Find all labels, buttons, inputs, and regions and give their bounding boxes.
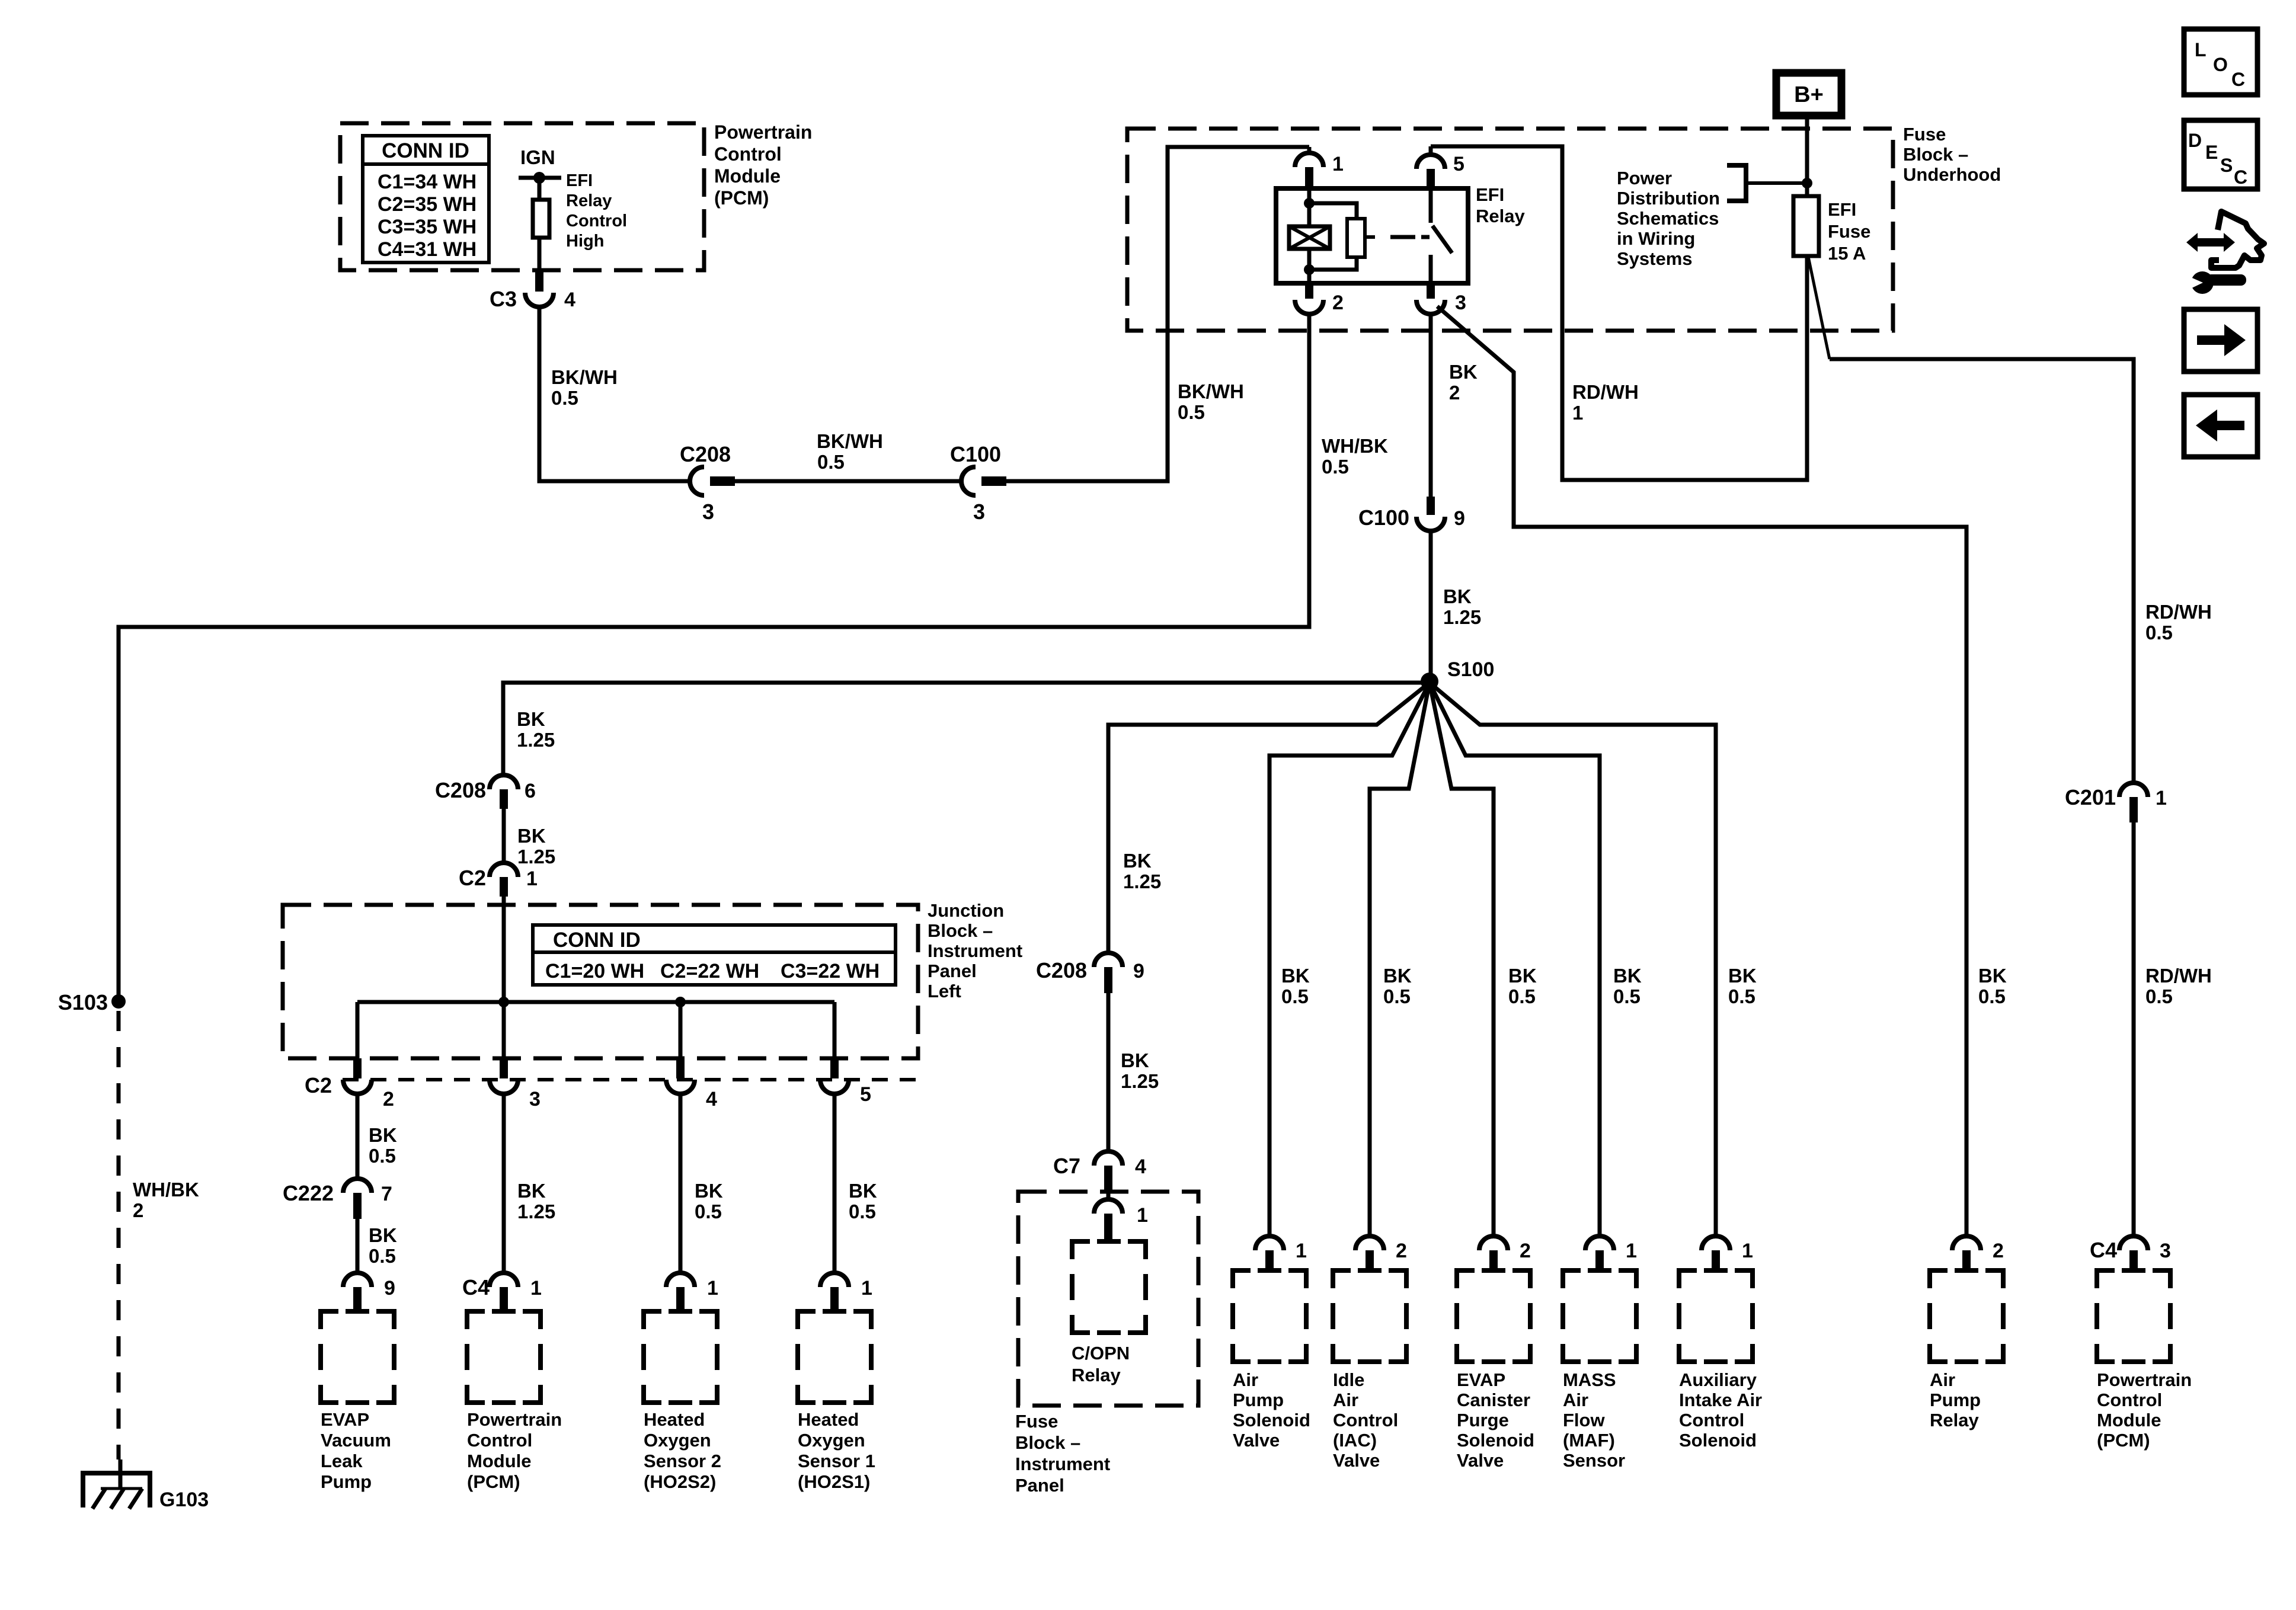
svg-text:Vacuum: Vacuum bbox=[321, 1430, 391, 1451]
svg-text:RD/WH: RD/WH bbox=[2145, 601, 2212, 623]
label: BK 0.5 (air pump relay) bbox=[1978, 965, 2007, 1007]
label: WH/BK 2 bbox=[133, 1179, 199, 1221]
svg-text:Junction: Junction bbox=[928, 900, 1004, 921]
svg-text:C7: C7 bbox=[1053, 1154, 1080, 1178]
ground G103 bbox=[83, 1459, 150, 1509]
svg-text:EFI: EFI bbox=[1476, 184, 1504, 205]
svg-text:0.5: 0.5 bbox=[551, 387, 578, 409]
svg-text:1: 1 bbox=[1296, 1240, 1307, 1262]
CONN ID table (junction block) bbox=[533, 925, 896, 985]
svg-text:1: 1 bbox=[861, 1277, 872, 1299]
svg-text:0.5: 0.5 bbox=[849, 1201, 876, 1222]
svg-text:(MAF): (MAF) bbox=[1563, 1430, 1615, 1451]
svg-text:D: D bbox=[2188, 130, 2202, 151]
junction dot (branch at C2-4) bbox=[675, 997, 686, 1007]
connector pin1 + box: MASS Air Flow Sensor bbox=[1563, 1236, 1637, 1471]
svg-text:Module: Module bbox=[467, 1451, 532, 1471]
svg-text:Air: Air bbox=[1333, 1390, 1358, 1410]
icon: right arrow box bbox=[2184, 309, 2257, 372]
label: BK 0.5 (air pump solenoid) bbox=[1281, 965, 1310, 1007]
label: Junction Block - Instrument Panel Left bbox=[928, 900, 1022, 1001]
label: G103 bbox=[159, 1489, 209, 1511]
svg-text:CONN ID: CONN ID bbox=[553, 929, 641, 952]
bracket: power distribution reference bbox=[1727, 165, 1807, 201]
wire: B+ to fuse bbox=[1805, 116, 1809, 196]
wire: S100 branch to IAC valve bbox=[1370, 683, 1430, 1237]
svg-text:in Wiring: in Wiring bbox=[1617, 228, 1695, 249]
svg-text:1: 1 bbox=[526, 868, 538, 890]
connector pin2 + box: Air Pump Relay bbox=[1930, 1236, 2004, 1430]
svg-text:2: 2 bbox=[1396, 1240, 1407, 1262]
svg-text:Solenoid: Solenoid bbox=[1679, 1430, 1757, 1451]
svg-text:Relay: Relay bbox=[566, 191, 612, 210]
label: Heated Oxygen Sensor 2 (HO2S2) bbox=[644, 1409, 721, 1492]
svg-text:0.5: 0.5 bbox=[1978, 985, 2006, 1007]
component box: Heated Oxygen Sensor 2, dashed bbox=[644, 1311, 717, 1403]
component box: Junction Block - Instrument Panel Left, dashed bbox=[283, 905, 918, 1058]
svg-text:Systems: Systems bbox=[1617, 248, 1693, 269]
component box: Heated Oxygen Sensor 1, dashed bbox=[798, 1311, 871, 1403]
svg-text:Control: Control bbox=[1333, 1410, 1398, 1430]
svg-text:C2: C2 bbox=[459, 866, 486, 890]
relay coil bbox=[1289, 188, 1330, 283]
svg-text:WH/BK: WH/BK bbox=[133, 1179, 199, 1201]
svg-text:1: 1 bbox=[707, 1277, 718, 1299]
svg-text:1: 1 bbox=[1332, 153, 1344, 175]
svg-text:Powertrain: Powertrain bbox=[714, 121, 812, 143]
svg-text:EFI: EFI bbox=[566, 171, 593, 190]
svg-text:BK: BK bbox=[1123, 850, 1152, 872]
wire: S100 branch to C208-9 column bbox=[1108, 683, 1430, 953]
svg-text:0.5: 0.5 bbox=[1281, 985, 1309, 1007]
label: RD/WH 0.5 (upper) bbox=[2145, 601, 2212, 644]
connector pin1 + box: Air Pump Solenoid Valve bbox=[1233, 1236, 1310, 1451]
svg-text:BK: BK bbox=[1121, 1049, 1149, 1071]
label: Power Distribution Schematics in Wiring Systems bbox=[1617, 168, 1720, 269]
wire: S100 branch to MAF sensor bbox=[1430, 683, 1600, 1237]
svg-text:High: High bbox=[566, 232, 604, 251]
svg-text:CONN ID: CONN ID bbox=[382, 139, 469, 162]
svg-text:0.5: 0.5 bbox=[2145, 622, 2173, 644]
label: BK/WH 0.5 (mid) bbox=[817, 430, 883, 473]
svg-text:BK: BK bbox=[1978, 965, 2007, 987]
label: RD/WH 0.5 (lower) bbox=[2145, 965, 2212, 1007]
connector C7 pin 4 (inline) bbox=[1053, 1151, 1146, 1192]
svg-text:Sensor 1: Sensor 1 bbox=[798, 1451, 875, 1471]
svg-text:1: 1 bbox=[1572, 402, 1583, 424]
svg-text:3: 3 bbox=[1455, 292, 1466, 314]
label: BK 0.5 (EVAP purge) bbox=[1508, 965, 1537, 1007]
svg-text:Module: Module bbox=[2097, 1410, 2161, 1430]
svg-text:Instrument: Instrument bbox=[1015, 1454, 1110, 1474]
svg-text:0.5: 0.5 bbox=[1383, 985, 1411, 1007]
svg-text:5: 5 bbox=[1453, 153, 1464, 175]
connector C222 pin 7 (inline) bbox=[283, 1179, 392, 1219]
svg-text:(PCM): (PCM) bbox=[2097, 1430, 2150, 1451]
component box: EVAP Vacuum Leak Pump, dashed bbox=[321, 1311, 394, 1403]
svg-text:Pump: Pump bbox=[1930, 1390, 1981, 1410]
svg-text:C2: C2 bbox=[305, 1073, 332, 1097]
label: EFI Relay bbox=[1476, 184, 1525, 226]
svg-text:2: 2 bbox=[1449, 382, 1460, 404]
icon: LOC box bbox=[2184, 29, 2257, 95]
svg-text:Heated: Heated bbox=[644, 1409, 705, 1430]
wire: WH/BK 2 S103 to G103, dashed bbox=[117, 1011, 121, 1459]
svg-text:Leak: Leak bbox=[321, 1451, 363, 1471]
svg-text:C: C bbox=[2234, 167, 2247, 188]
svg-text:Valve: Valve bbox=[1333, 1450, 1380, 1471]
svg-text:Schematics: Schematics bbox=[1617, 208, 1719, 229]
svg-text:1: 1 bbox=[2156, 787, 2167, 809]
svg-text:(HO2S2): (HO2S2) bbox=[644, 1471, 716, 1492]
svg-text:Pump: Pump bbox=[321, 1471, 372, 1492]
svg-text:0.5: 0.5 bbox=[369, 1245, 396, 1267]
svg-text:C2=35 WH: C2=35 WH bbox=[378, 193, 477, 216]
label: BK 1.25 (above C208-9) bbox=[1123, 850, 1161, 892]
svg-text:0.5: 0.5 bbox=[1178, 401, 1205, 423]
svg-text:Fuse: Fuse bbox=[1903, 124, 1946, 145]
svg-text:C4=31 WH: C4=31 WH bbox=[378, 238, 477, 261]
svg-text:2: 2 bbox=[383, 1088, 394, 1110]
svg-text:C208: C208 bbox=[1036, 958, 1087, 982]
junction dot relay coil top bbox=[1304, 198, 1315, 209]
svg-text:3: 3 bbox=[702, 500, 714, 524]
terminal B+ bbox=[1776, 73, 1841, 116]
connector row line C2, dotted bbox=[343, 1078, 917, 1081]
wire: BK 0.5 C2-5 to HO2S1 bbox=[833, 1094, 837, 1273]
connector C2 pin 4 bbox=[666, 1058, 717, 1110]
wire: C7-4 into fuse block bbox=[1107, 1192, 1111, 1201]
svg-text:C: C bbox=[2231, 69, 2245, 90]
svg-text:1: 1 bbox=[530, 1277, 542, 1299]
connector pin 1 (HO2S2) bbox=[666, 1273, 718, 1311]
svg-text:1.25: 1.25 bbox=[1123, 870, 1161, 892]
svg-text:(PCM): (PCM) bbox=[714, 187, 769, 209]
label: BK/WH 0.5 bbox=[551, 366, 618, 409]
svg-text:C2=22 WH: C2=22 WH bbox=[660, 960, 759, 982]
svg-text:0.5: 0.5 bbox=[1322, 456, 1349, 478]
svg-text:Relay: Relay bbox=[1930, 1410, 1979, 1430]
svg-text:Underhood: Underhood bbox=[1903, 164, 2001, 185]
svg-text:0.5: 0.5 bbox=[1613, 985, 1641, 1007]
svg-text:4: 4 bbox=[564, 289, 575, 311]
svg-text:BK/WH: BK/WH bbox=[551, 366, 618, 388]
svg-text:15 A: 15 A bbox=[1828, 243, 1866, 264]
connector relay pin 2 bbox=[1295, 283, 1344, 314]
svg-text:Control: Control bbox=[566, 212, 627, 231]
svg-text:Control: Control bbox=[714, 143, 782, 165]
svg-text:1: 1 bbox=[1626, 1240, 1637, 1262]
svg-text:Auxiliary: Auxiliary bbox=[1679, 1369, 1757, 1390]
svg-text:Power: Power bbox=[1617, 168, 1672, 188]
connector C2 pin 2 bbox=[343, 1058, 394, 1110]
svg-text:BK/WH: BK/WH bbox=[1178, 380, 1244, 402]
CONN ID table (PCM) bbox=[363, 136, 489, 263]
connector C201 pin 1 (inline) bbox=[2065, 783, 2167, 822]
svg-text:C222: C222 bbox=[283, 1181, 334, 1205]
svg-text:BK: BK bbox=[1443, 585, 1472, 607]
wire: RD/WH 0.5 fuse to C201 bbox=[1808, 257, 2134, 783]
svg-text:Heated: Heated bbox=[798, 1409, 859, 1430]
icon: schematic navigation (arrows and wrench) bbox=[2186, 212, 2264, 294]
wire: junction block internal branch bbox=[357, 1002, 834, 1058]
splice S100 bbox=[1421, 658, 1494, 690]
svg-text:Solenoid: Solenoid bbox=[1457, 1430, 1534, 1451]
svg-text:9: 9 bbox=[384, 1277, 395, 1299]
connector relay pin 5 bbox=[1416, 146, 1464, 188]
svg-text:1.25: 1.25 bbox=[517, 1201, 555, 1222]
svg-text:B+: B+ bbox=[1794, 82, 1824, 107]
wire: BK 0.5 relay pin 3 to air pump relay bbox=[1437, 306, 1966, 1237]
svg-text:Fuse: Fuse bbox=[1828, 221, 1870, 242]
junction dot (branch at C2-3) bbox=[498, 997, 509, 1007]
svg-text:C1=20 WH: C1=20 WH bbox=[545, 960, 644, 982]
label: BK 1.25 (below C208-9) bbox=[1121, 1049, 1159, 1092]
icon: left arrow box bbox=[2184, 395, 2257, 457]
svg-text:Block –: Block – bbox=[928, 920, 993, 941]
connector pin 9 (EVAP vacuum leak pump) bbox=[343, 1273, 395, 1311]
svg-text:Block –: Block – bbox=[1903, 144, 1968, 165]
svg-text:Canister: Canister bbox=[1457, 1390, 1530, 1410]
wire: BK 0.5 C2-2 to C222-7 bbox=[356, 1094, 360, 1179]
svg-text:Oxygen: Oxygen bbox=[644, 1430, 711, 1451]
svg-text:Relay: Relay bbox=[1476, 206, 1525, 226]
svg-text:BK/WH: BK/WH bbox=[817, 430, 883, 452]
relay switch contact bbox=[1431, 188, 1452, 283]
svg-text:0.5: 0.5 bbox=[695, 1201, 722, 1222]
wire: RD/WH 1 fuse to relay pin 5 bbox=[1431, 146, 1807, 480]
label: Fuse Block - Instrument Panel bbox=[1015, 1411, 1110, 1496]
label: BK 0.5 (auxiliary) bbox=[1728, 965, 1757, 1007]
svg-text:0.5: 0.5 bbox=[369, 1145, 396, 1167]
svg-text:1.25: 1.25 bbox=[1121, 1070, 1159, 1092]
wire: BK 0.5 C222-7 down bbox=[356, 1219, 360, 1273]
svg-text:Panel: Panel bbox=[1015, 1475, 1064, 1496]
svg-text:Valve: Valve bbox=[1233, 1430, 1280, 1451]
label: BK 0.5 (HO2S1) bbox=[849, 1180, 877, 1222]
svg-text:4: 4 bbox=[706, 1088, 717, 1110]
svg-text:Control: Control bbox=[1679, 1410, 1744, 1430]
connector relay pin 1 bbox=[1295, 147, 1344, 188]
svg-text:C4: C4 bbox=[2090, 1238, 2117, 1262]
svg-text:RD/WH: RD/WH bbox=[1572, 381, 1639, 403]
junction dot relay coil bottom bbox=[1304, 264, 1315, 275]
svg-text:Module: Module bbox=[714, 165, 781, 187]
splice S103 bbox=[58, 990, 126, 1014]
connector pin2 + box: EVAP Canister Purge Solenoid Valve bbox=[1457, 1236, 1534, 1471]
connector C3 pin 4 (PCM) bbox=[490, 270, 575, 311]
label: EFI Fuse 15 A bbox=[1828, 199, 1870, 264]
svg-text:3: 3 bbox=[2160, 1240, 2171, 1262]
label: BK 0.5 (2) bbox=[369, 1224, 397, 1267]
svg-text:BK: BK bbox=[1281, 965, 1310, 987]
label: EFI Relay Control High bbox=[566, 171, 627, 251]
svg-text:(HO2S1): (HO2S1) bbox=[798, 1471, 870, 1492]
svg-text:BK: BK bbox=[1613, 965, 1642, 987]
svg-text:C208: C208 bbox=[680, 442, 731, 466]
svg-text:Flow: Flow bbox=[1563, 1410, 1605, 1430]
label: BK 2 bbox=[1449, 361, 1478, 404]
label: EVAP Vacuum Leak Pump bbox=[321, 1409, 391, 1492]
svg-text:3: 3 bbox=[529, 1088, 541, 1110]
label: Powertrain Control Module (PCM) bbox=[714, 121, 812, 209]
connector pin 1 (C/OPN relay) bbox=[1094, 1199, 1148, 1241]
wire: into junction block bbox=[502, 897, 506, 1002]
svg-text:L: L bbox=[2195, 39, 2207, 60]
label: RD/WH 1 bbox=[1572, 381, 1639, 424]
label: BK/WH 0.5 (right) bbox=[1178, 380, 1244, 423]
wire: BK/WH 0.5 from C3-4 down and right bbox=[539, 307, 690, 481]
svg-text:MASS: MASS bbox=[1563, 1369, 1616, 1390]
svg-text:Air: Air bbox=[1233, 1369, 1258, 1390]
svg-text:S103: S103 bbox=[58, 990, 108, 1014]
svg-text:1.25: 1.25 bbox=[517, 846, 555, 868]
node IGN bbox=[519, 146, 561, 184]
component box: Powertrain Control Module (PCM), dashed bbox=[340, 123, 704, 270]
wire: WH/BK 0.5 relay pin 2 to S103 bbox=[119, 314, 1309, 998]
wire: BK 1.25 C2-3 to PCM bbox=[502, 1094, 506, 1273]
component box: Fuse Block - Instrument Panel, dashed bbox=[1018, 1192, 1198, 1406]
connector pin1 + box: Auxiliary Intake Air Control Solenoid bbox=[1679, 1236, 1762, 1451]
component box: Fuse Block - Underhood, dashed bbox=[1127, 129, 1893, 331]
svg-text:C1=34 WH: C1=34 WH bbox=[378, 171, 477, 193]
label: BK 0.5 bbox=[369, 1124, 397, 1167]
connector pin2 + box: Idle Air Control Valve bbox=[1333, 1236, 1407, 1471]
label: WH/BK 0.5 bbox=[1322, 435, 1388, 478]
svg-text:BK: BK bbox=[517, 1180, 546, 1202]
icon: DESC box bbox=[2184, 120, 2257, 189]
svg-text:Valve: Valve bbox=[1457, 1450, 1504, 1471]
svg-text:Air: Air bbox=[1930, 1369, 1955, 1390]
svg-text:Idle: Idle bbox=[1333, 1369, 1364, 1390]
svg-text:BK: BK bbox=[1508, 965, 1537, 987]
svg-text:O: O bbox=[2213, 54, 2228, 75]
wire: BK/WH 0.5 from C100 up to relay pin 1 bbox=[1006, 147, 1309, 481]
svg-text:Air: Air bbox=[1563, 1390, 1588, 1410]
connector C4 pin3 + box: Powertrain Control Module (PCM) bbox=[2090, 1236, 2192, 1451]
svg-text:BK: BK bbox=[849, 1180, 877, 1202]
svg-text:7: 7 bbox=[381, 1183, 392, 1205]
label: BK 1.25 (PCM col) bbox=[517, 1180, 555, 1222]
fuse: EFI Fuse 15 A bbox=[1793, 196, 1819, 256]
svg-text:WH/BK: WH/BK bbox=[1322, 435, 1388, 457]
connector pin 1 (HO2S1) bbox=[820, 1273, 872, 1311]
component box: Powertrain Control Module, dashed bbox=[467, 1311, 541, 1403]
svg-text:S100: S100 bbox=[1447, 658, 1494, 681]
svg-text:BK: BK bbox=[369, 1224, 397, 1246]
svg-text:Control: Control bbox=[2097, 1390, 2162, 1410]
wire: S100 branch to EVAP purge valve bbox=[1430, 683, 1494, 1237]
svg-text:Block –: Block – bbox=[1015, 1432, 1080, 1453]
svg-text:BK: BK bbox=[517, 825, 546, 847]
wire: BK 1.25 C208-6 to C2-1 bbox=[502, 809, 506, 863]
wire: S100 branch to air pump solenoid bbox=[1269, 683, 1430, 1237]
svg-text:0.5: 0.5 bbox=[1508, 985, 1536, 1007]
svg-text:Oxygen: Oxygen bbox=[798, 1430, 865, 1451]
svg-text:Relay: Relay bbox=[1072, 1365, 1121, 1385]
svg-text:0.5: 0.5 bbox=[1728, 985, 1755, 1007]
wire: RD/WH 0.5 C201 to PCM C4-3 bbox=[2132, 822, 2136, 1237]
svg-text:E: E bbox=[2205, 142, 2218, 163]
connector C2 pin 1 (junction block feed) bbox=[459, 863, 538, 897]
svg-text:1: 1 bbox=[1742, 1240, 1753, 1262]
svg-text:EVAP: EVAP bbox=[321, 1409, 369, 1430]
svg-text:0.5: 0.5 bbox=[2145, 985, 2173, 1007]
svg-text:S: S bbox=[2220, 155, 2233, 176]
svg-text:C3: C3 bbox=[490, 287, 517, 311]
svg-text:2: 2 bbox=[133, 1199, 143, 1221]
svg-text:Powertrain: Powertrain bbox=[2097, 1369, 2192, 1390]
wire: BK/WH 0.5 between C208 and C100 bbox=[735, 479, 961, 484]
svg-text:BK: BK bbox=[1728, 965, 1757, 987]
svg-text:C100: C100 bbox=[950, 442, 1001, 466]
label: Heated Oxygen Sensor 1 (HO2S1) bbox=[798, 1409, 875, 1492]
wire: S100 branch to auxiliary IAC solenoid bbox=[1430, 683, 1716, 1237]
svg-text:RD/WH: RD/WH bbox=[2145, 965, 2212, 987]
relay parallel resistor bbox=[1309, 203, 1375, 270]
connector C2 pin 3 bbox=[490, 1058, 541, 1110]
relay contact dash link bbox=[1390, 235, 1430, 239]
wire: S100 left to C208-6 column bbox=[503, 683, 1430, 776]
svg-text:1.25: 1.25 bbox=[517, 729, 555, 751]
component box: C/OPN Relay, dashed bbox=[1072, 1241, 1146, 1333]
resistor: EFI Relay Control High driver bbox=[533, 180, 549, 270]
svg-text:Pump: Pump bbox=[1233, 1390, 1284, 1410]
svg-text:C208: C208 bbox=[435, 778, 486, 802]
label: BK 1.25 (left col 2) bbox=[517, 825, 555, 868]
svg-text:Solenoid: Solenoid bbox=[1233, 1410, 1310, 1430]
svg-text:2: 2 bbox=[1520, 1240, 1531, 1262]
connector C100 pin 9 (inline) bbox=[1358, 497, 1465, 531]
svg-text:BK: BK bbox=[517, 708, 545, 730]
label: BK 1.25 (left col) bbox=[517, 708, 555, 751]
svg-text:Panel: Panel bbox=[928, 961, 977, 981]
svg-text:9: 9 bbox=[1454, 507, 1465, 530]
svg-text:Instrument: Instrument bbox=[928, 940, 1022, 961]
svg-text:Sensor: Sensor bbox=[1563, 1450, 1625, 1471]
label: Powertrain Control Module (PCM) bbox=[467, 1409, 562, 1492]
svg-text:BK: BK bbox=[1449, 361, 1478, 383]
svg-text:4: 4 bbox=[1135, 1156, 1146, 1178]
svg-text:Powertrain: Powertrain bbox=[467, 1409, 562, 1430]
connector C208 pin 3 (inline, horizontal) bbox=[680, 442, 735, 524]
svg-text:3: 3 bbox=[973, 500, 985, 524]
label: BK 1.25 bbox=[1443, 585, 1481, 628]
svg-text:C4: C4 bbox=[462, 1275, 490, 1299]
svg-text:BK: BK bbox=[369, 1124, 397, 1146]
svg-text:Control: Control bbox=[467, 1430, 532, 1451]
svg-text:6: 6 bbox=[525, 780, 536, 802]
svg-text:1.25: 1.25 bbox=[1443, 606, 1481, 628]
label: BK 0.5 (IAC) bbox=[1383, 965, 1412, 1007]
svg-text:2: 2 bbox=[1993, 1240, 2004, 1262]
connector C208 pin 9 (inline) bbox=[1036, 953, 1144, 993]
wire: BK 2 relay pin 3 down bbox=[1429, 314, 1433, 497]
svg-text:Intake Air: Intake Air bbox=[1679, 1390, 1762, 1410]
svg-text:2: 2 bbox=[1332, 292, 1344, 314]
wire: BK 1.25 C100-9 to S100 bbox=[1429, 531, 1433, 681]
connector C4 pin 1 (PCM) bbox=[462, 1273, 542, 1311]
connector C208 pin 6 (inline) bbox=[435, 775, 536, 809]
svg-text:C3=22 WH: C3=22 WH bbox=[781, 960, 880, 982]
svg-text:(PCM): (PCM) bbox=[467, 1471, 520, 1492]
svg-text:1: 1 bbox=[1137, 1204, 1148, 1227]
label C2 (row) bbox=[305, 1073, 332, 1097]
svg-text:0.5: 0.5 bbox=[817, 451, 845, 473]
svg-text:G103: G103 bbox=[159, 1489, 209, 1511]
svg-text:Left: Left bbox=[928, 981, 961, 1001]
connector C100 pin 3 (inline, horizontal) bbox=[950, 442, 1006, 524]
